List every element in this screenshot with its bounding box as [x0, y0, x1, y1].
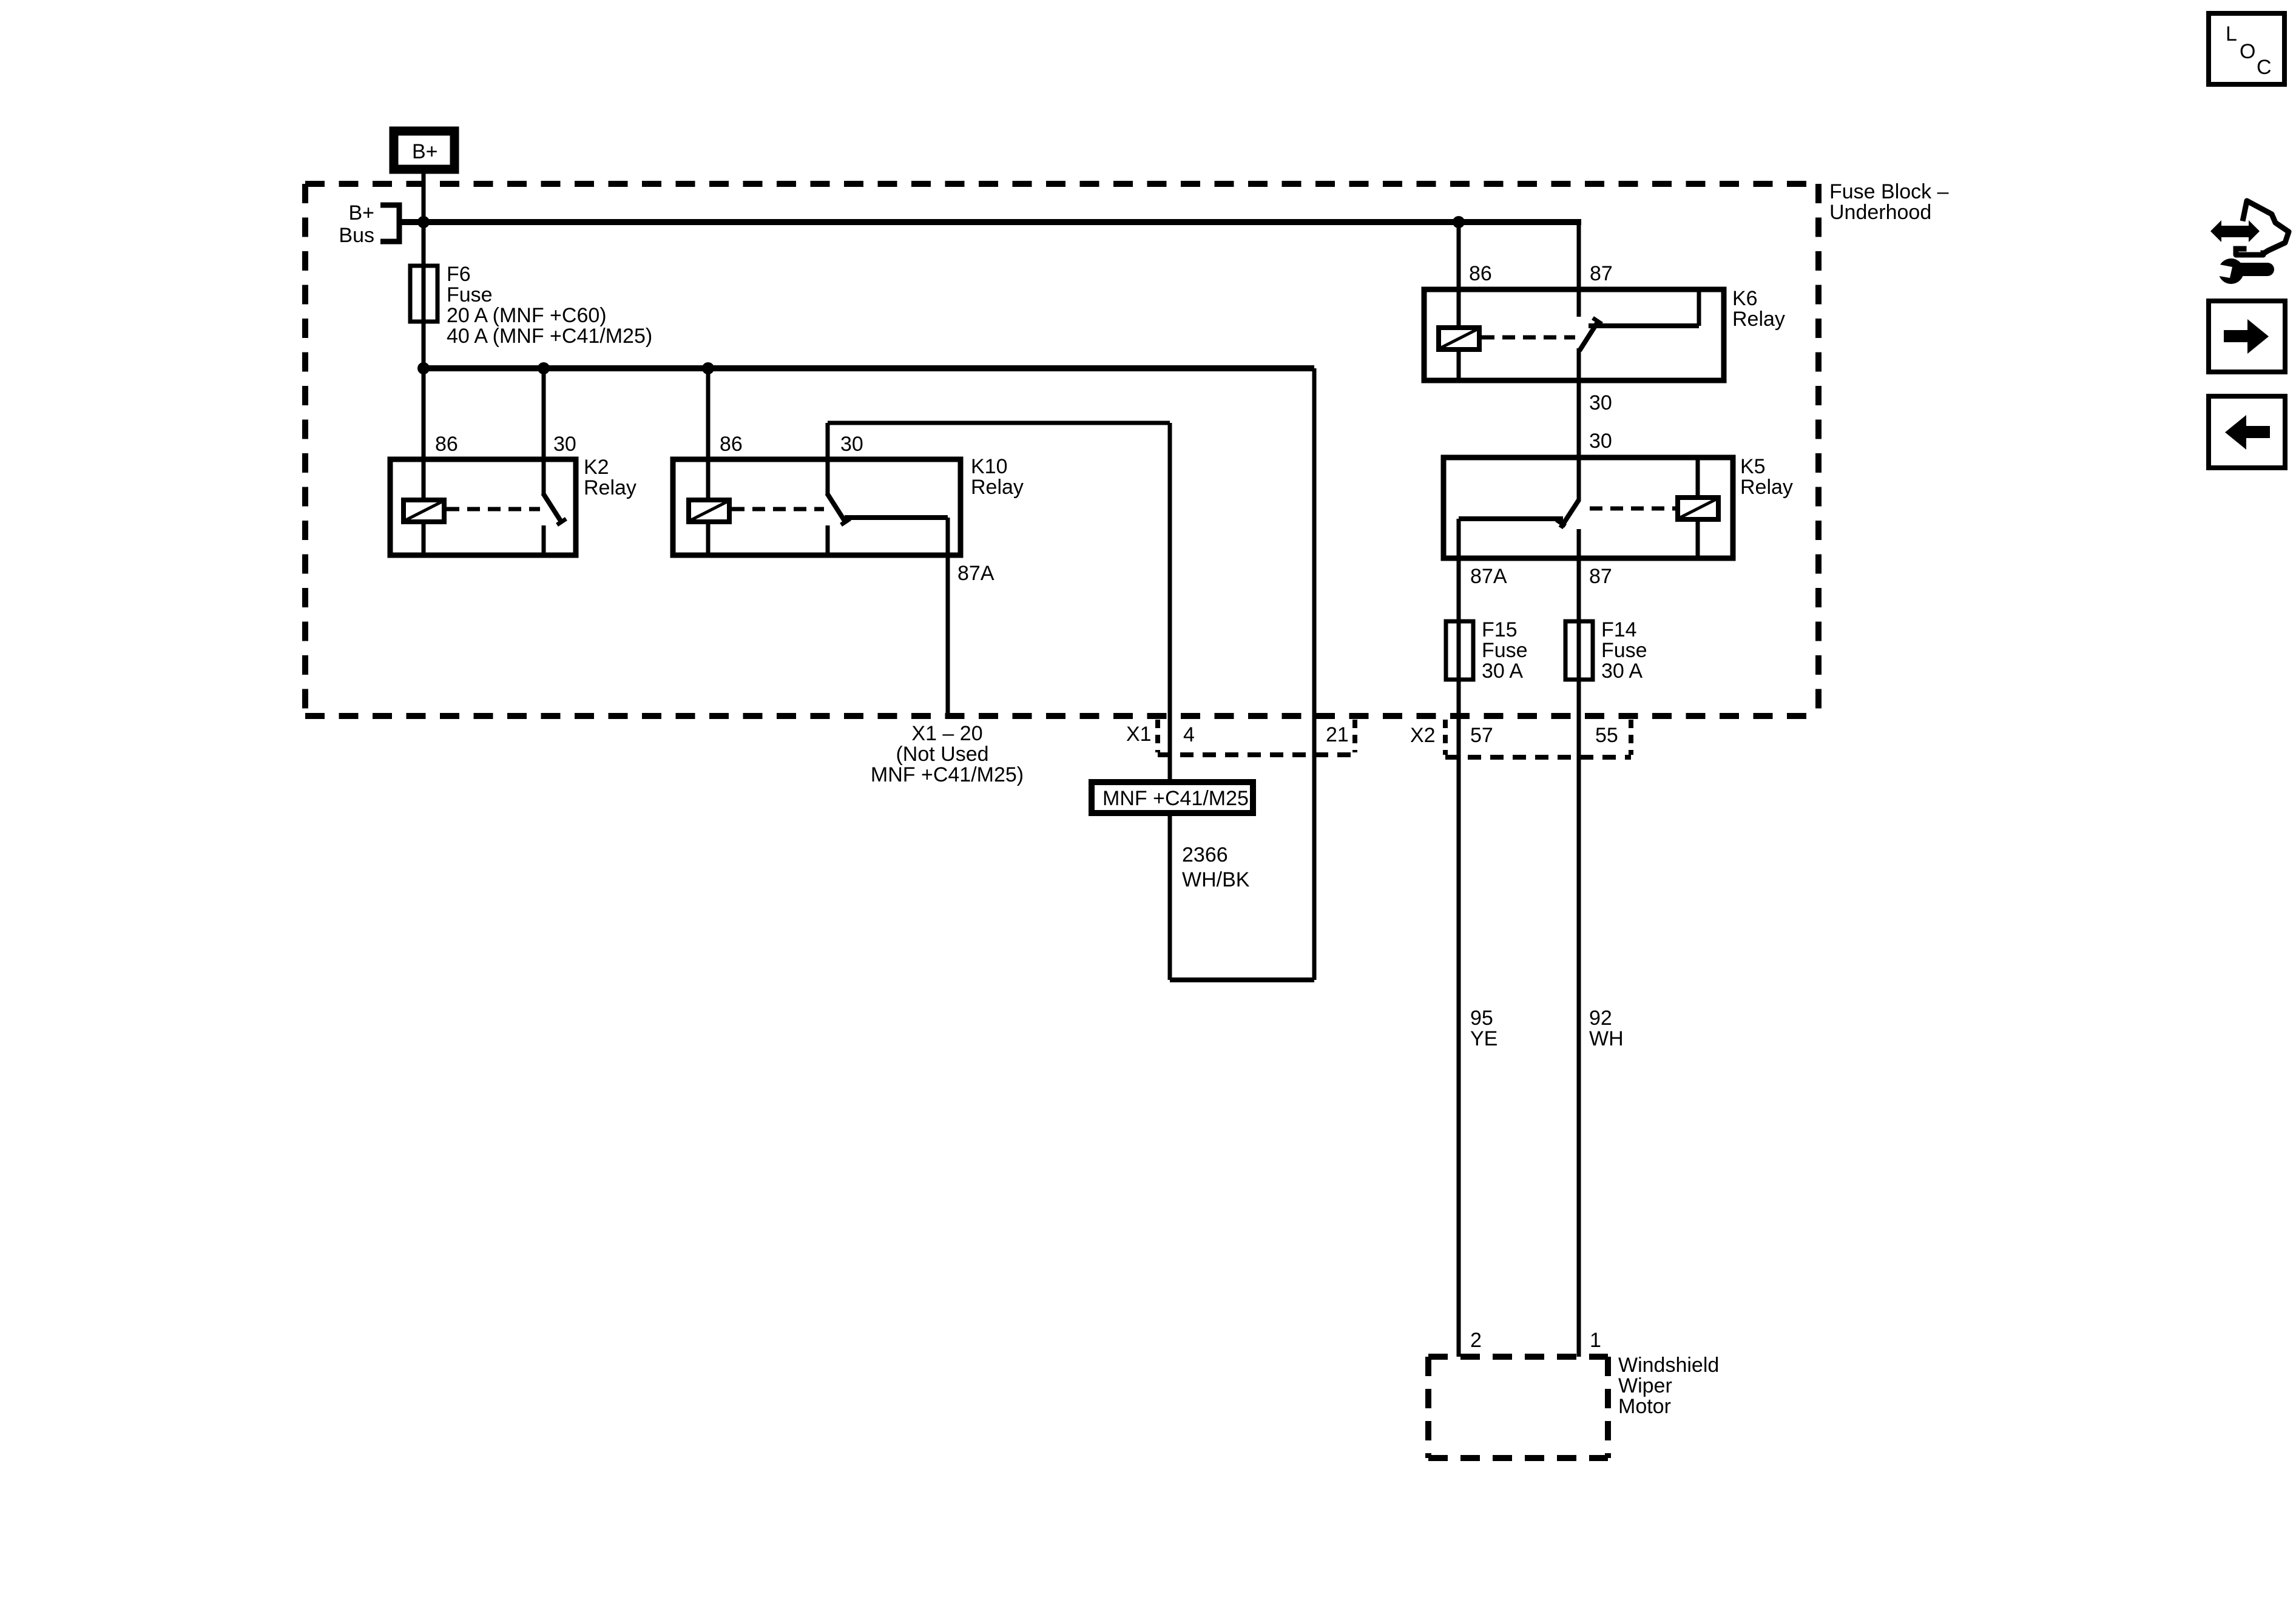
switch K10 [827, 493, 845, 522]
label K2 Relay [584, 456, 636, 499]
coil K10 [689, 500, 729, 522]
svg-text:X1 – 20: X1 – 20 [911, 722, 982, 745]
label X1-20 not used [871, 722, 1024, 786]
svg-text:L: L [2226, 22, 2237, 46]
svg-text:K2: K2 [584, 456, 609, 479]
svg-text:20 A (MNF +C60): 20 A (MNF +C60) [447, 304, 607, 327]
switch K6 [1579, 322, 1598, 351]
svg-text:4: 4 [1183, 723, 1195, 746]
svg-text:Windshield: Windshield [1618, 1354, 1719, 1377]
svg-text:X2: X2 [1410, 724, 1436, 747]
svg-text:87A: 87A [957, 562, 994, 585]
wire K10 pin 30 [826, 423, 830, 495]
svg-text:MNF +C41/M25): MNF +C41/M25) [871, 763, 1024, 786]
wire K6 pin 86 [1457, 222, 1461, 328]
wire K10 30 to connector X1-4 loop [828, 421, 1170, 425]
connector X1 pocket [1158, 720, 1355, 755]
svg-text:30 A: 30 A [1482, 660, 1523, 683]
wire loop bottom [1168, 813, 1172, 980]
icon arrow right box [2209, 301, 2285, 372]
connector X2 pocket [1445, 720, 1631, 757]
svg-text:Relay: Relay [584, 476, 636, 499]
svg-text:86: 86 [1469, 262, 1492, 285]
fuse F14 [1565, 621, 1593, 680]
coil K2 [403, 500, 444, 522]
coil K5 [1696, 457, 1700, 498]
svg-text:30 A: 30 A [1601, 660, 1643, 683]
svg-text:87A: 87A [1470, 565, 1507, 588]
svg-text:WH/BK: WH/BK [1182, 868, 1250, 891]
switch K5 [1561, 500, 1579, 528]
LOC reference box [2209, 13, 2284, 84]
label K2 pins [435, 433, 576, 456]
svg-text:86: 86 [720, 433, 743, 456]
relay K6 [1424, 219, 1724, 380]
svg-text:Fuse: Fuse [1482, 639, 1528, 662]
wire K10 87A down to X1-20 [946, 518, 950, 716]
svg-text:Fuse Block –: Fuse Block – [1829, 180, 1949, 203]
relay K10 [673, 368, 961, 555]
svg-text:57: 57 [1470, 724, 1493, 747]
B+ Bus bracket [380, 205, 399, 241]
svg-text:F14: F14 [1601, 618, 1637, 641]
svg-text:K5: K5 [1740, 455, 1766, 478]
label K10 Relay [971, 455, 1024, 499]
wire K2 pin 30 [542, 368, 546, 495]
svg-text:O: O [2240, 40, 2255, 63]
wire K10 87A contact [845, 515, 948, 520]
svg-text:Relay: Relay [971, 476, 1024, 499]
svg-text:MNF +C41/M25: MNF +C41/M25 [1102, 787, 1249, 810]
switch K2 [543, 493, 561, 522]
wire B+ bus horizontal [399, 219, 1581, 225]
icon adjust double arrow [2210, 220, 2260, 242]
svg-text:2: 2 [1470, 1329, 1482, 1352]
svg-text:K10: K10 [971, 455, 1008, 478]
wire K2 pin 86 [422, 368, 426, 500]
svg-text:F15: F15 [1482, 618, 1518, 641]
wire K6 pin 87 [1577, 219, 1581, 317]
label Windshield Wiper Motor [1618, 1354, 1719, 1418]
svg-text:Bus: Bus [339, 224, 374, 247]
svg-text:30: 30 [1589, 391, 1612, 414]
svg-text:Fuse: Fuse [447, 283, 493, 306]
wire K6 30 to K5 30 [1577, 348, 1581, 501]
dashed link K10 [732, 507, 824, 511]
label F15 Fuse 30 A [1482, 618, 1528, 683]
windshield wiper motor dashed box [1428, 1357, 1608, 1458]
wire feed bus to connector X1-21 [1312, 368, 1317, 980]
dashed link K6 [1482, 336, 1575, 340]
svg-text:(Not Used: (Not Used [896, 743, 988, 766]
svg-text:55: 55 [1595, 724, 1618, 747]
svg-text:Fuse: Fuse [1601, 639, 1647, 662]
node junction B+ bus / F6 [417, 216, 430, 228]
label K6 pins [1469, 262, 1613, 285]
svg-text:1: 1 [1590, 1329, 1601, 1352]
svg-text:Relay: Relay [1740, 476, 1793, 499]
fuse F15 [1446, 621, 1473, 680]
svg-text:21: 21 [1326, 723, 1349, 746]
wire K5 87A to fuse F15 [1457, 519, 1461, 1357]
svg-text:87: 87 [1589, 565, 1612, 588]
node junction feed bus / K2 30 [538, 362, 550, 374]
wire K10 pin 86 [706, 368, 711, 500]
svg-text:YE: YE [1470, 1027, 1497, 1050]
svg-text:X1: X1 [1126, 723, 1152, 746]
label K5 pins [1470, 565, 1612, 588]
label B+ Bus [339, 201, 374, 247]
icon wrench [2209, 258, 2267, 284]
svg-text:Relay: Relay [1732, 308, 1785, 331]
fuse block underhood dashed border [305, 184, 1818, 716]
label K5 Relay [1740, 455, 1793, 499]
wire relay feed bus [424, 365, 1314, 371]
svg-text:95: 95 [1470, 1007, 1493, 1030]
node junction feed bus / K2 86 [417, 362, 430, 374]
icon arrow left box [2209, 396, 2285, 468]
svg-text:30: 30 [1589, 430, 1612, 453]
node junction B+ bus / K6 86 [1453, 216, 1465, 228]
B+ power feed box [394, 131, 454, 169]
label wire 92 WH [1589, 1007, 1624, 1050]
svg-text:87: 87 [1590, 262, 1613, 285]
svg-text:Wiper: Wiper [1618, 1374, 1672, 1397]
svg-text:K6: K6 [1732, 287, 1758, 310]
relay K5 [1443, 457, 1733, 558]
label 30 between relays [1589, 391, 1612, 453]
svg-text:30: 30 [553, 433, 576, 456]
wire B+ drop to fuse F6 [422, 174, 426, 266]
wire K6 87 contact [1589, 323, 1699, 328]
label K6 Relay [1732, 287, 1785, 331]
label F6 Fuse ratings [447, 263, 652, 348]
svg-text:C: C [2257, 56, 2272, 79]
svg-text:86: 86 [435, 433, 458, 456]
svg-text:2366: 2366 [1182, 843, 1228, 866]
svg-text:WH: WH [1589, 1027, 1624, 1050]
dashed link K2 [447, 507, 540, 511]
label F14 Fuse 30 A [1601, 618, 1647, 683]
wire K5 87A contact [1459, 516, 1563, 521]
harness box MNF +C41/M25 [1092, 782, 1253, 813]
svg-text:Underhood: Underhood [1829, 201, 1931, 224]
svg-text:30: 30 [840, 433, 863, 456]
label X1 connector pins [1126, 723, 1349, 746]
svg-text:F6: F6 [447, 263, 471, 286]
icon hand outline [2236, 201, 2289, 255]
wire K5 87 to fuse F14 [1577, 529, 1581, 1357]
fuse F6 [410, 266, 437, 368]
label K10 pins [720, 433, 863, 456]
svg-text:Motor: Motor [1618, 1395, 1671, 1418]
dashed link K5 [1590, 507, 1678, 511]
label Fuse Block - Underhood [1829, 180, 1949, 224]
label wire 2366 WH/BK [1182, 843, 1250, 891]
svg-text:40 A (MNF +C41/M25): 40 A (MNF +C41/M25) [447, 325, 652, 348]
svg-text:92: 92 [1589, 1007, 1612, 1030]
label wire 95 YE [1470, 1007, 1497, 1050]
label X2 connector pins [1410, 724, 1618, 747]
node junction feed bus / K10 86 [702, 362, 714, 374]
svg-text:B+: B+ [348, 201, 374, 224]
svg-text:B+: B+ [412, 140, 438, 163]
relay K2 [390, 368, 576, 555]
coil K6 [1439, 328, 1479, 349]
